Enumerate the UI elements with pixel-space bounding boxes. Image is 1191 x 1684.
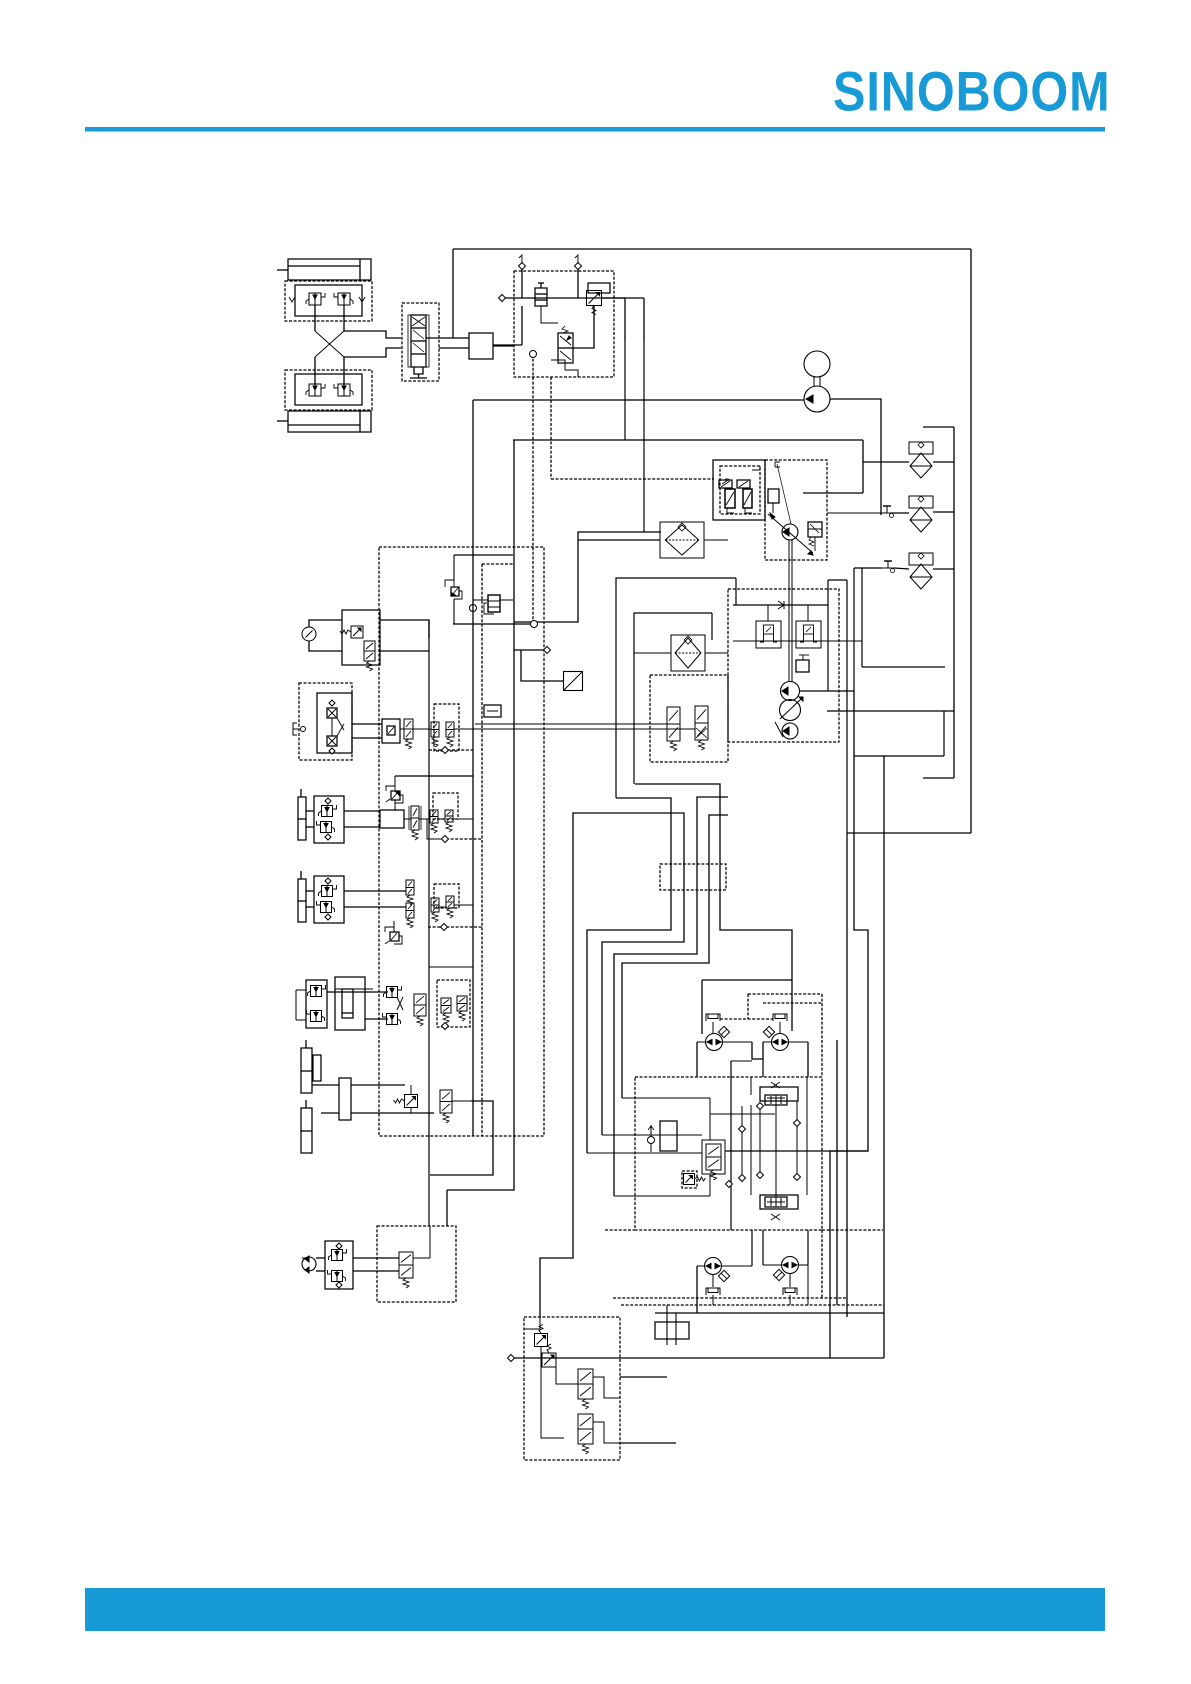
pump relief block (solid)	[713, 460, 765, 520]
row3 valve dn	[387, 1014, 398, 1025]
left inlet valve	[660, 1121, 677, 1151]
wire V828 ext	[827, 580, 829, 691]
wire rot A	[316, 1257, 325, 1259]
junction block square	[469, 333, 493, 359]
row1 valve small 2	[445, 810, 453, 822]
row1 spool	[411, 806, 419, 830]
wire bb out right	[593, 1377, 620, 1398]
wire charge spool	[473, 599, 488, 601]
check arrow left	[289, 297, 295, 302]
rotator cb1	[332, 1250, 343, 1261]
counterbalance block lower (dashed)	[285, 370, 372, 410]
dashed subbox top	[482, 563, 513, 565]
row3 drain	[442, 1023, 449, 1030]
wire V760	[759, 1106, 761, 1175]
comp valve	[808, 522, 822, 537]
rear motor R parking brake	[783, 1288, 797, 1295]
row4 cyl B	[301, 1108, 312, 1153]
port riser 2	[577, 262, 579, 298]
wire stair row4 to rotator	[430, 1101, 493, 1175]
wire pump line 640	[828, 640, 862, 642]
wire H580	[828, 579, 847, 581]
row2 cb1	[322, 886, 333, 897]
check valve on rail	[778, 601, 784, 609]
wire stub to rotator box	[446, 1190, 448, 1226]
wire row3 B	[365, 1018, 388, 1020]
wire row3 A	[327, 991, 388, 993]
shutoff valve 2	[881, 512, 893, 514]
wire relief top bracket	[752, 466, 760, 470]
rotator cb2	[332, 1271, 343, 1282]
wire to steering valve A	[344, 331, 401, 338]
leveling inner box	[317, 693, 352, 753]
wire rot spool out	[413, 1257, 430, 1259]
wire V862	[861, 568, 863, 667]
steering control valve (dashed box)	[402, 303, 439, 381]
check column	[650, 1125, 652, 1152]
wire inside box 2	[573, 306, 594, 348]
aux pump	[782, 723, 798, 739]
wire row2 relief stem	[393, 921, 395, 932]
wire row0 mid	[400, 728, 404, 730]
wire drive cross rail	[602, 1134, 702, 1136]
port riser 1	[521, 262, 523, 298]
wire down from box port A (dashed)	[532, 354, 534, 622]
node circle on V473	[470, 605, 477, 612]
tank rail vertical	[953, 427, 955, 778]
row0 dashed subbox	[434, 704, 459, 751]
pilot pump circle	[782, 524, 798, 540]
relief small drive (dashed)	[682, 1171, 697, 1188]
relief cartridge 1	[725, 489, 735, 508]
spring below spool	[414, 367, 423, 374]
front motor L parking brake	[706, 1014, 720, 1021]
row3 X wires	[397, 997, 403, 1010]
wire riser to pump suction	[521, 306, 523, 345]
wire pump outlet	[830, 399, 881, 515]
row1 drain dashed	[446, 838, 482, 840]
pump relief block inner (dashed)	[720, 466, 760, 514]
suction filter 2	[909, 496, 933, 508]
dashed pilot right lower	[821, 1230, 823, 1298]
wire row1 A	[306, 810, 314, 812]
row0 relief box	[382, 719, 400, 743]
row2 relief bottom	[390, 932, 399, 941]
wire V751 upper	[750, 1077, 752, 1095]
wire V944	[943, 711, 945, 756]
return filter	[660, 522, 704, 558]
wire from valve rails down to pump area	[624, 341, 626, 440]
row3 valve up	[387, 987, 398, 998]
leveling valve X pair	[327, 708, 337, 718]
wire rear motorR ports	[763, 1264, 781, 1266]
comp small valve	[796, 660, 809, 672]
row4 relief	[405, 1095, 418, 1108]
wire bb main	[511, 1357, 884, 1359]
wire long vertical 473	[472, 400, 474, 1136]
wire motor top feed	[702, 979, 792, 981]
charge spool valve	[488, 595, 500, 612]
wire bb internal 2	[556, 1367, 578, 1384]
filter-check in box	[535, 288, 547, 306]
row2 valve small 1	[431, 898, 439, 912]
wire vertical 482 dashed	[481, 564, 483, 1136]
wire lower filter left	[634, 652, 671, 654]
wire drive rail 1153	[587, 1152, 702, 1154]
shaft double line	[813, 377, 815, 386]
CB valve lower-left	[309, 384, 321, 396]
wire junction to riser	[493, 344, 522, 346]
wire brake block out	[380, 620, 429, 638]
shuttle box 1	[756, 621, 781, 648]
junction manifold rect (dashed)	[660, 864, 726, 890]
dashed pilot right upper	[821, 994, 823, 1077]
relief cartridge 2	[743, 489, 752, 508]
wire leveling out A	[352, 723, 382, 725]
bottom brake manifold (dashed)	[524, 1317, 620, 1460]
main gear pump	[804, 386, 830, 412]
row0 spool	[404, 719, 413, 739]
wire 863 riser	[862, 440, 864, 493]
row2 cylinder	[298, 879, 306, 922]
wire charge bottom	[453, 623, 534, 625]
wire row0 to small manifold A	[475, 723, 667, 725]
wire row0 to small manifold B	[460, 728, 695, 730]
wire front motor dip tee	[731, 1060, 752, 1062]
row3 valve small 1	[441, 998, 451, 1013]
wire V854	[853, 568, 855, 692]
charge relief valve	[451, 587, 459, 596]
wire gauge bottom	[309, 641, 342, 651]
row1 top rail	[395, 775, 473, 777]
wire steering to junction B	[439, 347, 469, 349]
wire row4 A	[312, 1084, 339, 1086]
wire drive inner left	[709, 1098, 711, 1140]
wire wrap 854-868-830	[830, 692, 868, 1358]
steering spool	[411, 315, 426, 367]
wire to steering valve B	[344, 348, 401, 357]
wire rear motorL ports	[697, 1265, 704, 1267]
wire row1 out	[453, 818, 473, 820]
bb spool 1	[578, 1369, 593, 1399]
wire rail 837	[836, 1040, 838, 1305]
wire row4 out	[452, 1100, 471, 1102]
wire tank 667	[862, 666, 945, 668]
row1 relief valve	[391, 791, 400, 800]
row4 bracket	[313, 1055, 321, 1081]
rear motor L brake box	[718, 1270, 729, 1281]
check arrow right	[359, 297, 365, 302]
wire breather1	[933, 461, 954, 463]
wire port B to relief block (dashed)	[551, 478, 714, 480]
leveling left port bracket	[293, 723, 297, 735]
wire filter tank	[578, 539, 660, 541]
row3 CB block	[306, 980, 327, 1028]
CB valve upper-left	[309, 293, 321, 305]
wire front motorR ports	[763, 1041, 772, 1043]
wire charge relief stem	[453, 555, 455, 580]
wire main pressure line	[502, 297, 644, 299]
wire V797	[796, 1101, 798, 1177]
row0 valve small 2	[446, 722, 454, 737]
bb relief 2	[542, 1353, 556, 1367]
row2 cb2	[321, 902, 332, 913]
wire brake block out2	[380, 650, 429, 652]
wire cooler left	[521, 650, 563, 681]
cooler / orifice square	[564, 672, 583, 691]
wire stair 514	[447, 440, 514, 1190]
row1 cylinder	[298, 797, 306, 840]
wire loop B (P2)	[635, 784, 792, 980]
CB valve upper-right	[338, 293, 350, 305]
wire rot B	[316, 1270, 325, 1272]
X in sol valve B	[696, 728, 707, 738]
front motor L brake box	[718, 1026, 729, 1037]
junction box small	[484, 705, 501, 717]
wire rot riser	[429, 1226, 431, 1258]
wire V742	[741, 1106, 743, 1178]
wire X-cross between axle blocks	[314, 305, 316, 331]
row2 dashed subbox	[434, 884, 459, 908]
row1 valve small 1	[430, 810, 438, 823]
wire rail 884	[883, 756, 885, 1358]
node on charge bottom	[531, 621, 538, 628]
shutoff valve 3	[882, 567, 894, 569]
rear motor R brake box	[773, 1269, 784, 1280]
wire bb internal 1	[541, 1347, 564, 1438]
wire loop A (P1)	[587, 798, 671, 1153]
row0 relief cartridge	[387, 726, 395, 735]
row1 cb1	[322, 806, 333, 817]
center inner box	[634, 613, 712, 784]
dashed 1230 extensions	[605, 1229, 635, 1231]
rotator valve box (dashed)	[377, 1226, 456, 1302]
wire long vertical 430	[428, 620, 430, 1226]
wire row4	[410, 1085, 412, 1094]
wire H711	[827, 710, 954, 712]
brake valve block	[342, 610, 380, 665]
footer bar (blue)	[85, 1588, 1105, 1631]
wire right bus vertical	[970, 249, 972, 833]
wire pump top line 440	[513, 439, 863, 441]
rot spool	[399, 1252, 413, 1278]
wire steering to junction A	[426, 337, 469, 339]
wire front motorL ports	[697, 1041, 705, 1043]
wire V847 full	[846, 580, 848, 834]
wire bb exits	[620, 1376, 667, 1378]
pressure gauge	[302, 627, 316, 641]
wire V776 center	[775, 1105, 777, 1197]
wire filter feed	[514, 532, 644, 622]
node diamonds drive	[739, 1126, 746, 1133]
row3 cb2	[311, 1011, 322, 1022]
wire lower filter right	[705, 652, 728, 654]
wire right vertical to lower section	[846, 834, 848, 1317]
row2 spool upper	[406, 880, 414, 895]
wire row1 B	[306, 826, 314, 828]
wire through junction 2	[675, 1313, 677, 1345]
wire junction to main valve	[493, 345, 514, 347]
main variable pump	[780, 700, 801, 721]
drive manifold (dashed)	[635, 1077, 822, 1230]
cylinder upper axle-lock	[288, 259, 371, 280]
rotator block	[325, 1241, 353, 1289]
row4 cyl A	[301, 1048, 312, 1093]
row4 spool	[440, 1090, 452, 1113]
wire row2 A	[306, 890, 314, 892]
front motor R brake box	[763, 1026, 774, 1037]
relief valve main	[587, 291, 602, 306]
shuttle box 2	[796, 621, 821, 648]
SINOBOOM logo	[833, 60, 1111, 124]
rotator motor	[302, 1257, 316, 1271]
wire drive rail 1151	[725, 1150, 868, 1152]
main control valve assembly (dashed box)	[514, 271, 614, 377]
swash piston	[768, 489, 779, 503]
boom section top rail	[733, 604, 828, 606]
wire loop D	[614, 797, 728, 1196]
leveling cluster (dashed)	[299, 683, 352, 760]
row0 valve small 1	[431, 722, 439, 737]
wire V807	[806, 1077, 808, 1195]
wire inside box 1	[541, 306, 558, 323]
front wheel motor L	[706, 1034, 723, 1051]
front wheel motor R	[772, 1034, 789, 1051]
row3 spool	[414, 994, 426, 1016]
row3 valve small 2	[457, 996, 467, 1011]
row1 inlet section box	[380, 810, 404, 828]
row4 body	[339, 1078, 351, 1120]
wire filter top link	[644, 531, 661, 533]
lower return filter	[671, 635, 705, 671]
front motor R parking brake	[773, 1014, 787, 1021]
wire row1 relief stem	[394, 800, 396, 811]
row1 drain loop	[427, 819, 443, 839]
wire breather3	[854, 567, 882, 569]
suction filter 1	[909, 442, 933, 454]
row3 dashed subbox	[437, 980, 470, 1027]
solenoid spool in brake block	[364, 641, 375, 661]
brake pilot dashed wires	[748, 993, 822, 995]
wire gauge top	[309, 620, 342, 627]
main function manifold (dashed)	[379, 547, 544, 1136]
small manifold left of pump (dashed)	[650, 675, 728, 762]
row2 spool lower	[406, 903, 414, 918]
rear wheel motor L	[705, 1258, 722, 1275]
wire drive rail 1196	[614, 1195, 710, 1197]
swash diagonal arm	[768, 514, 813, 553]
flow divider valve top	[760, 1087, 798, 1101]
wire box to right rail	[602, 297, 625, 299]
pump swash enclosure (dashed)	[765, 460, 827, 560]
row2 CB block	[314, 876, 344, 923]
rear motor L parking brake	[706, 1288, 720, 1295]
wire V731	[730, 1061, 732, 1230]
wire suction 493	[803, 492, 863, 494]
wire loop E	[622, 815, 728, 1098]
wire pump out right	[800, 690, 854, 692]
row0 drain dashed	[429, 749, 474, 751]
wire loop C (T return)	[540, 813, 684, 1317]
electric motor M	[804, 351, 830, 377]
X tick bottom divider	[771, 1214, 780, 1220]
wire breather2	[827, 512, 882, 514]
row2 valve small 2	[446, 896, 454, 908]
charge pump	[781, 682, 800, 701]
wire filter right	[704, 539, 728, 541]
wire right rail from main valve	[624, 298, 626, 341]
solenoid valve 3way	[558, 333, 573, 363]
counterbalance block upper (dashed)	[285, 281, 372, 321]
wire riser left of main valve	[452, 249, 454, 338]
cylinder lower axle-lock	[288, 411, 371, 432]
sol valve B in small manifold	[695, 706, 708, 740]
header rule (blue)	[85, 127, 1105, 132]
wire right bus bottom jog	[847, 832, 971, 834]
bb relief 1	[535, 1334, 548, 1347]
junction rect bottom	[655, 1322, 689, 1339]
row1 CB block	[314, 796, 344, 843]
pump tilt line	[775, 722, 783, 737]
counter valve mid	[706, 1144, 721, 1170]
boom cb housing 1	[755, 620, 757, 622]
wire shuttle rail	[733, 640, 828, 642]
wire H756	[854, 755, 944, 757]
wire through junction	[666, 1305, 668, 1345]
wire manifold feed 555	[454, 554, 513, 556]
wire row0 out	[454, 728, 473, 730]
wire leveling out B	[352, 737, 382, 739]
shuttle stubs	[767, 605, 769, 621]
wire pump suction long	[473, 399, 804, 401]
flow divider valve bottom	[760, 1195, 798, 1209]
row3 bracket	[295, 990, 297, 1020]
wire row2 out	[454, 904, 473, 906]
row1 cb2	[321, 822, 332, 833]
wire bb top stub	[524, 1317, 540, 1329]
wire breather1 left	[863, 461, 909, 463]
wire row1 link	[438, 818, 445, 820]
wire cooler feed node	[514, 649, 545, 651]
wire drive bottom runs	[613, 1297, 847, 1299]
wire down from box port B (dashed)	[550, 377, 552, 479]
row3 cylinder	[335, 977, 365, 1030]
wire row4 B	[321, 1112, 339, 1114]
wire row2 B	[306, 906, 314, 908]
row2 drain dashed	[428, 926, 482, 928]
wire drive rail 1114	[710, 1113, 775, 1115]
wire row3 out	[429, 966, 473, 968]
swash pilot line thin	[777, 464, 791, 524]
wire row1 mid	[404, 818, 411, 820]
rear wheel motor R	[782, 1257, 799, 1274]
wire V751	[750, 1105, 752, 1195]
wire shaft down	[788, 540, 790, 682]
suction filter 3	[909, 553, 933, 565]
pump group enclosure (dashed)	[728, 589, 839, 742]
row1 dashed subbox	[433, 793, 458, 819]
center outer box	[616, 578, 736, 798]
wire rear brake stems down	[712, 1295, 714, 1305]
sol valve A in small manifold	[667, 707, 680, 741]
relief in brake block	[351, 626, 363, 638]
row3 cb1	[311, 986, 322, 997]
X tick top divider	[771, 1082, 780, 1088]
bb spool 2	[578, 1414, 593, 1444]
wire top bus	[453, 248, 971, 250]
CB valve lower-right	[338, 384, 350, 396]
